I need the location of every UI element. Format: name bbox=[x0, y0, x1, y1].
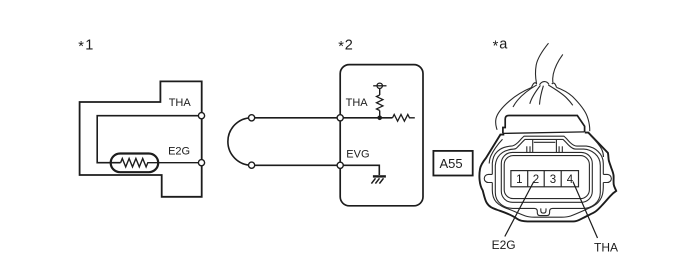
svg-text:THA: THA bbox=[346, 97, 369, 109]
svg-text:*1: *1 bbox=[78, 37, 93, 54]
svg-text:*2: *2 bbox=[338, 37, 353, 54]
svg-text:4: 4 bbox=[567, 174, 574, 186]
svg-text:THA: THA bbox=[169, 97, 192, 109]
svg-text:E2G: E2G bbox=[492, 238, 516, 252]
svg-text:E2G: E2G bbox=[168, 145, 190, 157]
svg-text:EVG: EVG bbox=[346, 148, 369, 160]
svg-text:1: 1 bbox=[516, 174, 522, 186]
svg-text:THA: THA bbox=[594, 240, 618, 254]
svg-text:A55: A55 bbox=[440, 156, 463, 171]
svg-text:3: 3 bbox=[550, 174, 556, 186]
svg-text:*a: *a bbox=[493, 36, 509, 54]
svg-text:2: 2 bbox=[533, 174, 539, 186]
